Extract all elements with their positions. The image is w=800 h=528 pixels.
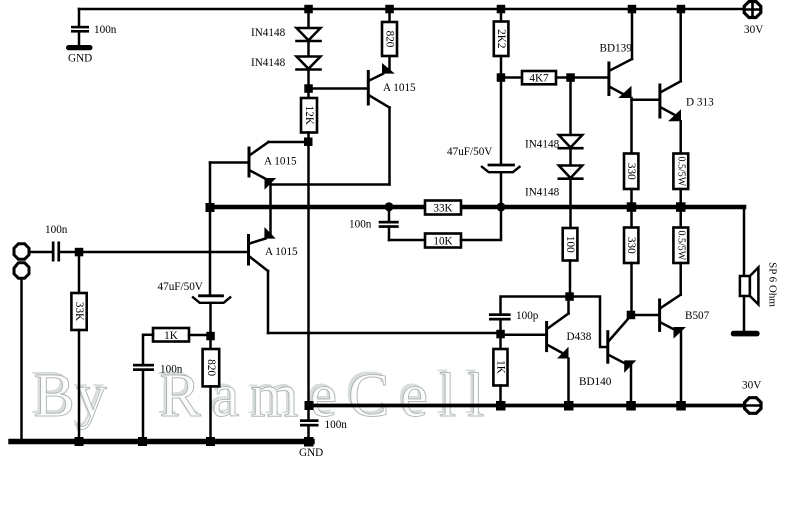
wire Q3 collector to 100p node	[268, 332, 501, 335]
svg-text:12K: 12K	[303, 106, 315, 125]
transistor Q8 B507 base bar	[658, 300, 661, 330]
node junction output bus / 0.5-5W column	[676, 202, 686, 212]
node junction top rail / 2K2 column	[497, 5, 506, 14]
wire D313 emitter down to 0.5/5W	[679, 121, 682, 153]
wire junction down to diode D3	[569, 78, 572, 136]
node junction GND bus / 820	[206, 437, 215, 446]
transistor Q3 emitter diagonal	[250, 239, 266, 244]
transistor Q6 collector diagonal	[548, 314, 569, 329]
wire 820 to GND bus	[209, 386, 212, 441]
node junction 4K7 / diodes / BD139 base	[566, 73, 575, 82]
wire top rail to diode D1	[307, 9, 310, 28]
transistor Q8 collector diagonal	[661, 295, 681, 308]
diode D2 IN4148	[297, 57, 321, 70]
svg-text:4K7: 4K7	[529, 73, 549, 85]
capacitor C 47uF/50V (bootstrap) top plate	[489, 164, 514, 167]
svg-text:D 313: D 313	[686, 97, 714, 109]
transistor Q4 emitter diagonal	[610, 87, 625, 95]
wire 47uF to 1K/820 junction	[209, 303, 212, 349]
node junction -30V rail / 1K	[496, 401, 506, 411]
svg-text:820: 820	[384, 31, 396, 48]
resistor R 820 (Q1 emitter)	[382, 9, 397, 70]
wire 10K to output node	[461, 209, 501, 240]
wire input jack bottom to GND bus	[20, 279, 23, 442]
node junction output-bus feedback tap	[206, 203, 215, 212]
node junction output bus / 330 column	[627, 202, 637, 212]
capacitor C 100n input coupling	[52, 242, 60, 262]
svg-text:BD140: BD140	[579, 376, 612, 388]
wire input jack to coupling cap	[30, 251, 53, 254]
wire +30V top rail	[79, 8, 744, 11]
resistor R 0.5/5W (upper)	[673, 154, 688, 190]
wire emitters to Q1 collector	[271, 183, 390, 186]
svg-text:IN4148: IN4148	[251, 27, 286, 39]
wire 47uF to output node	[500, 173, 503, 208]
transistor Q6 D438 base bar	[545, 323, 548, 351]
capacitor C 47uF/50V (bootstrap) curved plate	[482, 167, 520, 172]
wire base node to D438 base	[501, 334, 547, 337]
wire D2 to junction	[307, 70, 310, 89]
transistor Q2 collector diagonal	[250, 142, 269, 155]
node junction 12K bottom / Q2 collector	[304, 138, 313, 147]
speaker SP cone	[750, 267, 759, 304]
transistor Q8 emitter diagonal	[661, 323, 677, 332]
connector +30V terminal	[744, 2, 761, 18]
transistor Q1 emitter arrow	[382, 63, 395, 74]
node junction D438 collector / 100	[565, 292, 574, 301]
svg-text:BD139: BD139	[600, 42, 633, 54]
transistor Q5 emitter diagonal	[661, 108, 674, 115]
wire 100p to base node	[499, 321, 502, 335]
svg-text:SP 6 Ohm: SP 6 Ohm	[767, 262, 779, 307]
capacitor C 100n (top-left decoupling)	[71, 9, 89, 45]
svg-text:GND: GND	[299, 447, 323, 459]
WATERMARK	[31, 359, 496, 430]
wire BD140 emitter to -30V rail	[630, 365, 633, 406]
resistor R 330 (lower)	[624, 207, 638, 315]
svg-text:100n: 100n	[45, 224, 68, 236]
svg-text:1K: 1K	[164, 330, 178, 342]
speaker SP body	[740, 276, 750, 296]
resistor R 10K (feedback)	[425, 234, 461, 248]
wire B507 emitter to -30V rail	[680, 332, 683, 406]
resistor R 33K (input shunt)	[71, 293, 86, 330]
wire junction down to 33K	[78, 252, 81, 293]
connector input jack top	[14, 244, 29, 259]
svg-text:100n: 100n	[349, 219, 372, 231]
wire D438 emitter to -30V rail	[567, 359, 570, 406]
diode D4 IN4148	[559, 166, 583, 179]
svg-text:100n: 100n	[160, 364, 183, 376]
wire 1K right to junction	[189, 334, 206, 337]
transistor Q7 BD140 base bar	[606, 332, 609, 363]
diode D1 IN4148	[297, 28, 321, 41]
wire Q3 collector down	[267, 271, 270, 333]
svg-text:A 1015: A 1015	[383, 82, 416, 94]
ground bar (speaker return)	[731, 331, 760, 337]
svg-text:IN4148: IN4148	[525, 187, 560, 199]
svg-text:A 1015: A 1015	[265, 246, 298, 258]
diode D3 IN4148	[559, 135, 583, 148]
node junction -30V rail / 100n GND cap	[305, 401, 314, 410]
resistor R 1K (D438 base)	[493, 334, 507, 406]
node junction output bus / 10K / bootstrap	[497, 203, 506, 212]
capacitor C 47uF/50V curved plate	[193, 297, 230, 303]
wire speaker to ground bar	[743, 296, 746, 331]
transistor Q8 emitter arrow	[674, 327, 687, 339]
svg-text:100n: 100n	[325, 419, 348, 431]
wire junction left to 100p branch	[501, 297, 570, 314]
svg-text:33K: 33K	[433, 203, 452, 215]
capacitor C 100p	[489, 313, 511, 320]
wire Q2 collector to 12K bottom junction	[269, 141, 309, 144]
transistor Q5 collector diagonal	[661, 81, 681, 92]
transistor Q4 emitter arrow	[618, 86, 631, 98]
capacitor C 100n (feedback leg)	[133, 364, 154, 371]
node junction top rail / 820 column	[385, 5, 394, 14]
node junction GND bus / 33K	[75, 437, 84, 446]
transistor Q3 emitter arrow	[264, 227, 275, 239]
transistor Q3 A1015 (input) base bar	[247, 236, 250, 265]
svg-text:330: 330	[625, 163, 637, 180]
transistor Q7 collector diagonal	[609, 316, 631, 342]
wire -30V bottom rail	[309, 404, 745, 408]
connector -30V terminal	[745, 398, 761, 414]
wire BD139 emitter to D313 base	[632, 99, 660, 102]
wire 12K column down to -30V rail	[307, 142, 310, 406]
wire output bus	[210, 205, 744, 210]
wire 100 to D438 collector junction	[569, 261, 572, 297]
node junction 2K2 / 4K7 / 47uF	[497, 73, 506, 82]
transistor Q2 base wire	[210, 161, 249, 164]
wire 100n to GND bus	[142, 371, 145, 442]
svg-text:ByRameCell: ByRameCell	[34, 362, 496, 430]
transistor Q5 D313 base bar	[658, 85, 661, 117]
transistor Q4 BD139 base bar	[607, 63, 610, 95]
svg-text:30V: 30V	[744, 24, 763, 36]
resistor R 0.5/5W (lower)	[673, 207, 688, 295]
wire D313 collector to top rail	[679, 9, 682, 81]
svg-text:D438: D438	[567, 331, 592, 343]
transistor Q2 A1015 base bar	[248, 148, 251, 176]
transistor Q2 emitter diagonal	[250, 171, 265, 179]
svg-text:1K: 1K	[495, 360, 507, 374]
node junction GND bus end	[304, 437, 314, 447]
wire D438 collector up to junction	[567, 297, 570, 314]
resistor R 820 (feedback leg)	[203, 349, 220, 386]
wire 0.5/5W upper to output bus	[679, 189, 682, 207]
svg-text:100p: 100p	[516, 310, 539, 322]
node junction diodes / 12K / Q1 base	[304, 84, 313, 93]
resistor R 2K2	[494, 9, 509, 78]
node junction input / 33K	[75, 248, 84, 256]
svg-text:47uF/50V: 47uF/50V	[158, 281, 203, 293]
resistor R 1K (feedback leg)	[153, 328, 189, 342]
wire B507 base wire	[631, 314, 659, 317]
svg-text:A 1015: A 1015	[264, 156, 297, 168]
transistor Q4 collector diagonal	[610, 59, 632, 71]
wire junction to Q1 base	[309, 87, 368, 90]
wire D4 down to 100 resistor (crosses output bus)	[569, 179, 572, 228]
capacitor C 47uF/50V (feedback) top plate	[200, 294, 223, 297]
svg-text:IN4148: IN4148	[251, 57, 286, 69]
svg-text:100n: 100n	[94, 24, 117, 36]
node junction -30V rail / B507 emitter	[676, 401, 686, 411]
svg-text:IN4148: IN4148	[525, 139, 560, 151]
node junction GND bus / 100n	[138, 437, 147, 446]
wire BD139 emitter down to 330	[630, 98, 633, 154]
svg-text:10K: 10K	[433, 236, 452, 248]
wire 100n to 10K	[389, 239, 425, 242]
transistor Q6 emitter diagonal	[548, 345, 562, 353]
svg-text:GND: GND	[68, 53, 92, 65]
svg-text:2K2: 2K2	[495, 29, 507, 48]
node junction top rail / D313 collector	[677, 5, 686, 14]
wire D1 to D2	[307, 41, 310, 57]
transistor Q2 emitter arrow	[265, 178, 277, 190]
node junction BD140 collector / B507 base / 330	[627, 311, 636, 320]
node junction 100p / 1K / D438 base	[496, 330, 505, 339]
wire 33K to GND bus	[78, 330, 81, 442]
wire BD139 collector to top rail	[631, 9, 634, 59]
node junction -30V rail / BD140 emitter	[626, 401, 636, 411]
svg-text:100: 100	[564, 236, 576, 253]
svg-text:30V: 30V	[742, 380, 761, 392]
transistor Q5 emitter arrow	[668, 109, 681, 121]
node junction output bus / 100n+10K tap	[385, 202, 394, 211]
transistor Q6 emitter arrow	[557, 347, 569, 359]
svg-text:47uF/50V: 47uF/50V	[447, 146, 492, 158]
wire 330 upper to output bus	[630, 189, 633, 207]
svg-text:820: 820	[205, 359, 217, 376]
node junction top rail / BD139 collector	[628, 5, 637, 14]
connector input jack bottom	[14, 263, 29, 278]
transistor Q7 emitter arrow	[624, 360, 636, 373]
node junction -30V rail / D438 emitter	[564, 401, 574, 411]
ground GND (top-left)	[66, 45, 93, 50]
svg-text:33K: 33K	[73, 302, 85, 321]
wire Q2 base down to feedback node	[209, 163, 212, 296]
wire junction right to BD140 base route	[570, 297, 608, 348]
wire junction down to 47uF bootstrap cap	[500, 78, 503, 165]
resistor R 12K	[301, 89, 317, 143]
transistor Q1 emitter diagonal	[369, 74, 383, 81]
transistor Q3 collector diagonal	[250, 257, 269, 272]
wire shared emitters vertical	[269, 183, 272, 234]
resistor R 4K7	[501, 71, 608, 84]
svg-text:330: 330	[625, 237, 637, 254]
resistor R 33K (feedback)	[425, 201, 461, 215]
wire D3 to D4	[569, 148, 572, 165]
svg-text:B507: B507	[685, 310, 710, 322]
node junction 1K / 820 / 47uF	[206, 332, 215, 341]
svg-text:0.5/5W: 0.5/5W	[675, 156, 686, 186]
resistor R 100	[563, 228, 578, 261]
resistor R 330 (upper)	[624, 154, 638, 190]
capacitor C 100n (feedback lag)	[379, 207, 399, 240]
transistor Q7 emitter diagonal	[609, 355, 627, 365]
transistor Q1 collector diagonal	[369, 96, 389, 108]
capacitor C 100n (rail to GND)	[300, 406, 319, 442]
wire 1K left corner	[143, 335, 153, 364]
node junction top rail / diode column	[304, 5, 313, 14]
wire GND bus (bottom-left)	[11, 439, 312, 444]
svg-text:0.5/5W: 0.5/5W	[675, 230, 686, 260]
wire output bus to speaker	[743, 207, 746, 276]
transistor Q1 A1015 base bar	[367, 72, 370, 105]
wire Q1 collector down	[388, 108, 391, 185]
wire input cap to base of A1015 Q3	[60, 251, 247, 254]
